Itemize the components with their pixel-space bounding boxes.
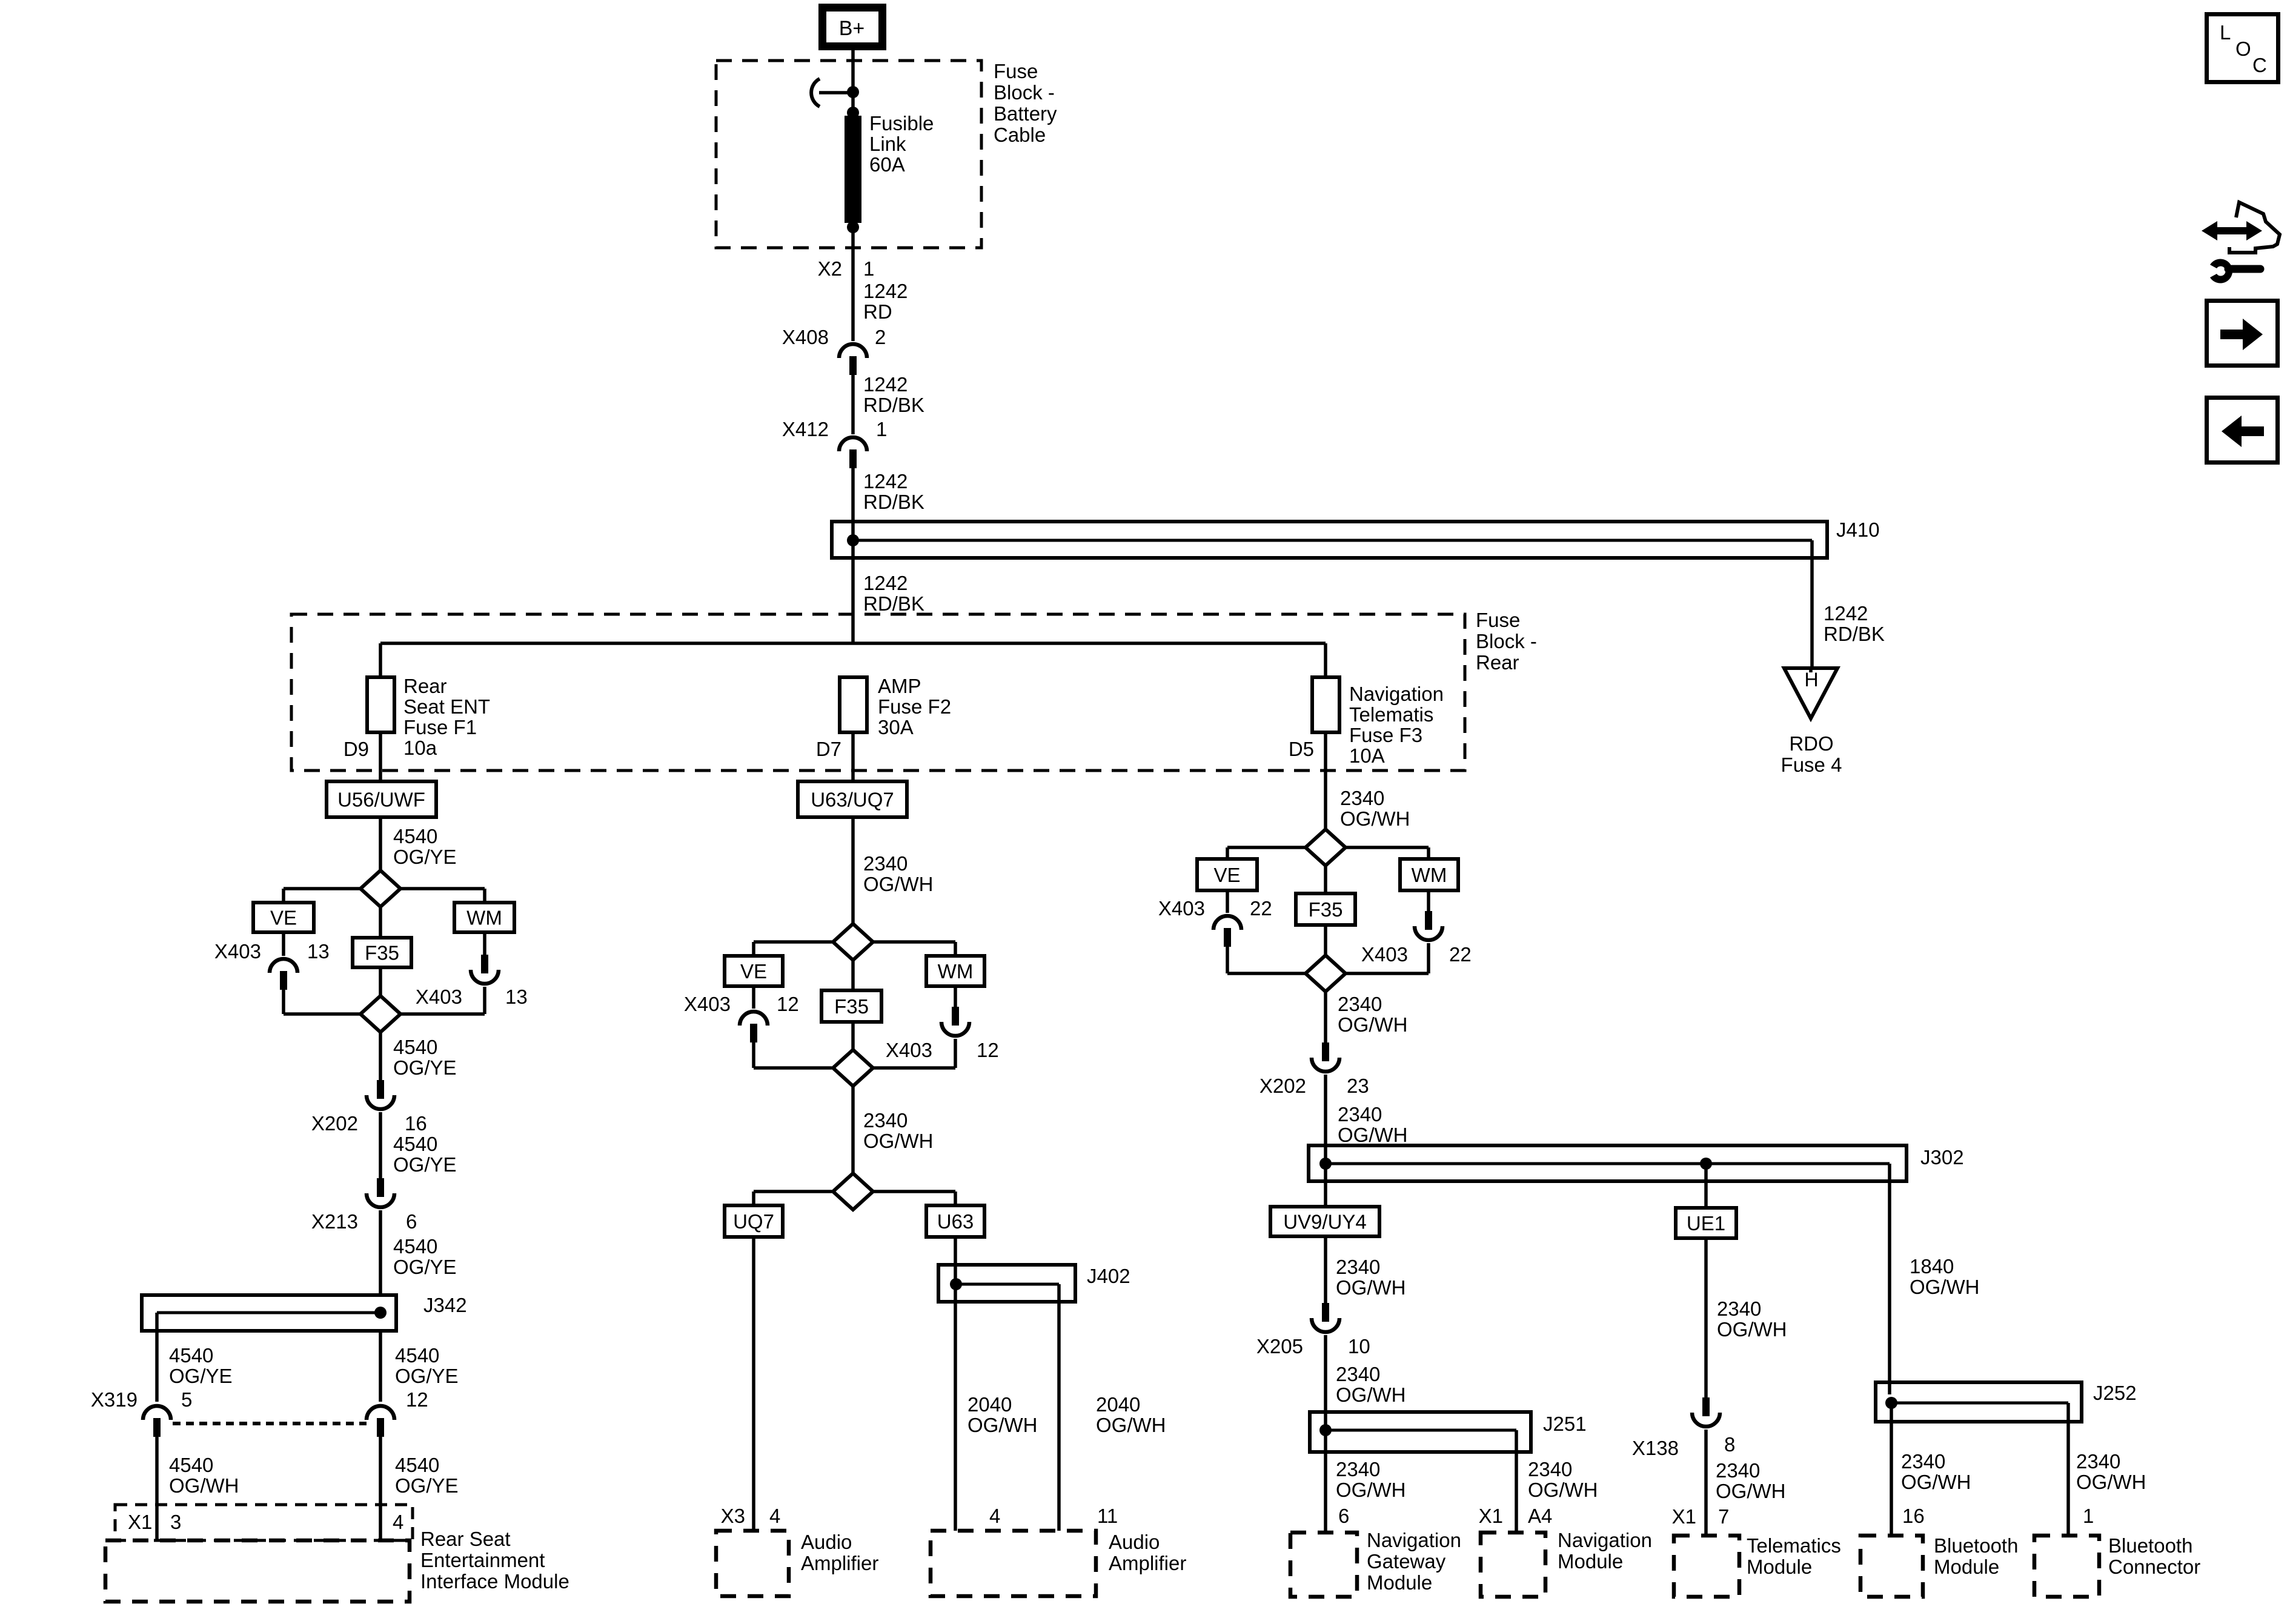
wire label 4540 OG/YE left leg [169, 1344, 233, 1387]
wire splice to U63 [872, 1191, 955, 1205]
wire 1242 RD/BK to splice J410 [851, 466, 855, 522]
wire U56/UWF to splice [379, 817, 382, 870]
wire to splice 3 [851, 1086, 855, 1173]
fusible link label [869, 112, 934, 176]
svg-text:13: 13 [505, 986, 528, 1008]
svg-text:X408: X408 [782, 326, 829, 348]
svg-text:VE: VE [740, 960, 767, 983]
wire J251 to navigation module [1515, 1430, 1518, 1533]
RPO box VE left [253, 903, 314, 932]
rear seat entertainment interface module label [420, 1528, 569, 1593]
svg-text:23: 23 [1347, 1075, 1369, 1097]
svg-text:2340: 2340 [863, 1109, 908, 1132]
wire UV9/UY4 to X205 [1324, 1236, 1327, 1303]
fuse block rear label [1476, 609, 1537, 674]
RPO box VE right [1197, 859, 1257, 890]
svg-text:Link: Link [869, 133, 906, 155]
svg-text:OG/WH: OG/WH [1336, 1479, 1406, 1501]
bluetooth module dashed box [1860, 1536, 1923, 1597]
svg-text:X319: X319 [91, 1388, 138, 1411]
wire label 4540 OG/YE 4 [393, 1235, 457, 1278]
rear seat entertainment interface module dashed box [105, 1540, 410, 1602]
svg-text:2340: 2340 [1336, 1363, 1380, 1385]
wire splice to F35 left [379, 907, 382, 938]
wire X403-12 right to splice [872, 1039, 955, 1068]
wire splice to VE mid [754, 942, 832, 956]
svg-text:X403: X403 [886, 1039, 932, 1061]
wire 1242 RD/BK upper [851, 373, 855, 434]
svg-text:1242: 1242 [863, 470, 908, 492]
svg-text:Audio: Audio [801, 1531, 852, 1553]
wire WM to X403 [483, 932, 486, 955]
bluetooth connector label [2108, 1534, 2200, 1578]
inline connector X138 pin 8 [1632, 1397, 1735, 1459]
svg-text:Fusible: Fusible [869, 112, 934, 134]
wire 1242 RD [851, 248, 855, 341]
wire label 2340 OG/WH right 2 [1338, 993, 1407, 1036]
wire splice to VE [284, 889, 360, 903]
inline connector X403 pin 13 right [416, 955, 528, 1008]
svg-text:7: 7 [1718, 1505, 1729, 1528]
back arrow box [2207, 398, 2278, 463]
wire label 2340 OG/WH right 5 [1336, 1363, 1406, 1406]
svg-text:2340: 2340 [1338, 993, 1382, 1015]
wire J410 to RDO fuse [1810, 540, 1814, 671]
svg-text:Seat ENT: Seat ENT [403, 695, 490, 718]
wire F35 to splice mid lower [851, 1022, 855, 1050]
svg-text:J402: J402 [1087, 1265, 1130, 1287]
wire label 2340 OG/WH gateway [1336, 1458, 1406, 1501]
splice J402 [938, 1265, 1075, 1302]
RPO box UE1 [1676, 1208, 1736, 1238]
svg-text:Amplifier: Amplifier [1109, 1552, 1186, 1574]
svg-text:12: 12 [777, 993, 799, 1015]
svg-text:Audio: Audio [1109, 1531, 1160, 1553]
splice J251 [1310, 1412, 1531, 1452]
svg-text:OG/WH: OG/WH [1528, 1479, 1598, 1501]
svg-text:D9: D9 [343, 738, 369, 760]
svg-text:X1: X1 [1672, 1505, 1696, 1528]
svg-text:10A: 10A [1349, 744, 1385, 767]
wire VE to X403 right column [1226, 890, 1229, 913]
RPO box VE mid [725, 956, 783, 986]
svg-text:X403: X403 [684, 993, 731, 1015]
wire label 4540 OG/YE bottom [395, 1454, 459, 1497]
svg-text:C: C [2252, 54, 2267, 76]
wire splice to UQ7 [754, 1191, 832, 1205]
connector X1 pin A4 labels [1479, 1505, 1553, 1527]
svg-text:Fuse F2: Fuse F2 [878, 695, 951, 718]
svg-text:VE: VE [270, 907, 297, 929]
svg-text:2: 2 [875, 326, 886, 348]
wire label 2340 OG/WH UE1 [1717, 1298, 1787, 1341]
connector X1 pin labels [128, 1511, 403, 1533]
svg-text:X3: X3 [721, 1505, 745, 1527]
wire main through J302 to UV9/UY4 [1324, 1145, 1327, 1207]
svg-text:F35: F35 [365, 942, 399, 964]
wire label 2340 OG/WH mid 1 [863, 852, 933, 895]
inline connector X319 pin 12 [367, 1406, 394, 1420]
svg-text:22: 22 [1250, 897, 1272, 920]
svg-text:WM: WM [466, 907, 502, 929]
svg-text:Module: Module [1747, 1556, 1812, 1578]
svg-text:Telematics: Telematics [1747, 1534, 1841, 1557]
inline connector X412 pin 1 [782, 418, 887, 468]
wire F35 to splice lower left [379, 967, 382, 996]
svg-text:2340: 2340 [1528, 1458, 1572, 1480]
svg-text:UE1: UE1 [1687, 1212, 1725, 1235]
svg-text:10: 10 [1348, 1335, 1370, 1357]
wire label 4540 OG/YE right leg [395, 1344, 459, 1387]
svg-text:4540: 4540 [395, 1454, 439, 1476]
wire fuse F2 to U63/UQ7 [851, 732, 855, 781]
svg-text:OG/YE: OG/YE [395, 1474, 459, 1497]
wire J302 to UE1 [1704, 1164, 1708, 1208]
wire label 2340 OG/WH right 4 [1336, 1256, 1406, 1299]
svg-text:RD/BK: RD/BK [863, 592, 924, 615]
telematics module label [1747, 1534, 1841, 1578]
svg-text:OG/YE: OG/YE [393, 846, 457, 868]
connector X1 pin 7 labels [1672, 1505, 1730, 1528]
svg-text:F35: F35 [1309, 898, 1343, 921]
svg-text:1: 1 [863, 257, 874, 280]
audio amplifier 1 dashed box [716, 1531, 789, 1596]
bluetooth module label [1934, 1534, 2018, 1578]
wire label 1242 RD/BK lower [863, 572, 924, 615]
svg-text:OG/WH: OG/WH [1901, 1471, 1971, 1493]
wire J252 to bluetooth connector [2066, 1403, 2070, 1536]
navigation gateway module dashed box [1290, 1533, 1357, 1597]
splice J302 [1309, 1145, 1907, 1181]
svg-text:Telematis: Telematis [1349, 703, 1433, 726]
svg-text:J252: J252 [2093, 1382, 2137, 1404]
svg-text:4540: 4540 [169, 1344, 213, 1367]
svg-text:2340: 2340 [1336, 1256, 1380, 1278]
svg-text:Rear: Rear [403, 675, 447, 697]
svg-text:OG/WH: OG/WH [863, 873, 933, 895]
svg-text:2340: 2340 [863, 852, 908, 875]
svg-text:60A: 60A [869, 153, 905, 176]
wire splice to WM right [1346, 847, 1429, 859]
battery terminal B+ [823, 8, 883, 47]
svg-text:OG/WH: OG/WH [2076, 1471, 2146, 1493]
fuse block rear feed bus wire [380, 643, 1326, 677]
wire U63 through splice J402 [954, 1237, 957, 1531]
svg-text:Module: Module [1367, 1571, 1432, 1594]
wrench icon [2210, 259, 2260, 283]
svg-text:OG/WH: OG/WH [1096, 1414, 1166, 1436]
svg-text:OG/WH: OG/WH [1910, 1276, 1979, 1298]
svg-text:Fuse: Fuse [994, 60, 1038, 82]
inline connector X205 pin 10 [1256, 1303, 1370, 1357]
svg-text:OG/WH: OG/WH [1338, 1124, 1407, 1146]
wire label 2340 OG/WH telematics [1716, 1459, 1785, 1502]
svg-text:L: L [2220, 21, 2231, 44]
svg-text:WM: WM [938, 960, 974, 983]
wire X138 to telematics module [1704, 1430, 1708, 1536]
svg-text:4540: 4540 [393, 1133, 437, 1155]
connector X319 labels [91, 1388, 428, 1411]
RPO box F35 left [353, 938, 411, 967]
svg-text:1242: 1242 [863, 373, 908, 396]
svg-text:5: 5 [181, 1388, 192, 1411]
connector X1 dashed strip [115, 1505, 413, 1540]
svg-text:4: 4 [393, 1511, 403, 1533]
svg-text:WM: WM [1412, 864, 1447, 886]
svg-text:OG/WH: OG/WH [1717, 1318, 1787, 1341]
fuse block battery cable dashed outline [716, 61, 981, 248]
svg-text:12: 12 [406, 1388, 428, 1411]
svg-text:4540: 4540 [395, 1344, 439, 1367]
svg-text:Fuse F3: Fuse F3 [1349, 724, 1422, 746]
svg-text:11: 11 [1097, 1505, 1118, 1527]
wire label 2340 OG/WH nav module [1528, 1458, 1598, 1501]
svg-text:RD/BK: RD/BK [863, 394, 924, 416]
svg-text:2340: 2340 [1336, 1458, 1380, 1480]
svg-text:A4: A4 [1528, 1505, 1552, 1527]
wire splice to WM [400, 889, 485, 903]
splice diamond mid third [833, 1173, 873, 1210]
RPO box F35 right [1296, 893, 1355, 925]
wire J342 right leg to X319 [379, 1331, 382, 1402]
wire WM to X403 mid [954, 986, 957, 1007]
wire F35 to splice right lower [1324, 925, 1327, 955]
wire X403-13 left to splice [284, 988, 360, 1014]
svg-text:2040: 2040 [967, 1393, 1012, 1416]
svg-text:2340: 2340 [1717, 1298, 1761, 1320]
fuse F1 label [403, 675, 490, 759]
svg-text:J410: J410 [1836, 519, 1880, 541]
svg-text:J302: J302 [1920, 1146, 1964, 1168]
svg-text:RD: RD [863, 300, 892, 323]
wire label 2340 OG/WH bluetooth module [1901, 1450, 1971, 1493]
svg-text:RD/BK: RD/BK [863, 491, 924, 513]
svg-text:OG/YE: OG/YE [393, 1056, 457, 1079]
telematics module dashed box [1674, 1536, 1739, 1597]
svg-text:12: 12 [977, 1039, 999, 1061]
wire X403-22 left to splice [1227, 945, 1306, 973]
svg-text:VE: VE [1213, 864, 1240, 886]
inline connector X213 pin 6 [311, 1178, 417, 1233]
svg-text:Block -: Block - [994, 81, 1055, 104]
svg-text:Entertainment: Entertainment [420, 1549, 545, 1571]
navigation module dashed box [1481, 1533, 1545, 1597]
wire label 1242 RD/BK middle [863, 470, 924, 513]
fuse F3 Navigation Telematis 10A [1312, 677, 1339, 732]
svg-text:3: 3 [170, 1511, 181, 1533]
wire X319-12 to module [379, 1436, 382, 1540]
splice J252 [1876, 1382, 2082, 1422]
svg-text:U63: U63 [937, 1210, 974, 1233]
RPO box U63/UQ7 [798, 781, 907, 817]
svg-text:X403: X403 [214, 940, 261, 963]
wire label 2040 OG/WH right [1096, 1393, 1166, 1436]
wire label 1242 RD/BK right branch [1824, 602, 1885, 645]
svg-text:Fuse 4: Fuse 4 [1781, 754, 1842, 776]
svg-text:2340: 2340 [1901, 1450, 1945, 1473]
svg-text:Bluetooth: Bluetooth [1934, 1534, 2018, 1557]
fuse F2 AMP 30A [840, 677, 867, 732]
svg-text:Module: Module [1934, 1556, 1999, 1578]
wire WM to X403 right column [1427, 890, 1430, 911]
wire fuse F3 down [1324, 732, 1327, 829]
svg-text:Module: Module [1558, 1550, 1623, 1573]
wire splice to F35 right [1324, 866, 1327, 893]
wire label 4540 OG/YE 2 [393, 1036, 457, 1079]
svg-text:30A: 30A [878, 716, 914, 738]
svg-text:X412: X412 [782, 418, 829, 440]
fuse block rear dashed outline [291, 614, 1465, 771]
audio amplifier 2 pin labels [989, 1505, 1118, 1527]
svg-text:Fuse F1: Fuse F1 [403, 716, 477, 738]
inline connector X408 pin 2 [782, 326, 886, 375]
RPO box UQ7 [725, 1205, 783, 1237]
RPO box U63 [926, 1205, 984, 1237]
navigation gateway module label [1367, 1529, 1461, 1594]
svg-text:B+: B+ [839, 17, 865, 40]
wire splice to VE right [1227, 847, 1306, 859]
inline connector X403 pin 22 left [1158, 897, 1272, 947]
wire U63/UQ7 to splice [851, 817, 855, 924]
audio amplifier 2 dashed box [931, 1531, 1096, 1596]
svg-text:X2: X2 [818, 257, 842, 280]
svg-text:F35: F35 [834, 995, 869, 1018]
fuse block battery cable label [994, 60, 1057, 146]
svg-text:Fuse: Fuse [1476, 609, 1520, 631]
svg-text:8: 8 [1724, 1433, 1735, 1456]
svg-text:Navigation: Navigation [1349, 683, 1444, 705]
power symbol H RDO Fuse 4 [1784, 668, 1837, 718]
svg-text:2340: 2340 [2076, 1450, 2120, 1473]
wire X202 to X213 [379, 1112, 382, 1178]
wire X403-12 left to splice [754, 1041, 832, 1068]
svg-text:X213: X213 [311, 1210, 358, 1233]
svg-text:1242: 1242 [1824, 602, 1868, 625]
inline connector X319 pin 5 [143, 1406, 171, 1420]
svg-text:X138: X138 [1632, 1437, 1679, 1459]
wire label 2340 OG/WH right 3 [1338, 1103, 1407, 1146]
wire fuse F1 to U56/UWF [379, 732, 382, 781]
svg-text:Bluetooth: Bluetooth [2108, 1534, 2192, 1557]
svg-text:X1: X1 [1479, 1505, 1503, 1527]
svg-text:UQ7: UQ7 [733, 1210, 774, 1233]
svg-text:2340: 2340 [1340, 787, 1384, 809]
wire to X202 right [1324, 992, 1327, 1042]
navigation module label [1558, 1529, 1652, 1573]
wire J402 to audio amplifier 2 [1057, 1284, 1061, 1531]
wire X205 to splice J251 [1324, 1335, 1327, 1412]
RPO box WM left [454, 903, 514, 932]
inline connector X403 pin 12 right [886, 1007, 999, 1061]
svg-text:1242: 1242 [863, 572, 908, 594]
audio amplifier 1 label [801, 1531, 878, 1574]
wire UE1 to X138 [1704, 1238, 1708, 1397]
svg-text:X202: X202 [311, 1112, 358, 1135]
wire VE to X403 [282, 932, 285, 956]
svg-text:1242: 1242 [863, 280, 908, 302]
svg-text:4540: 4540 [393, 1036, 437, 1058]
wire B+ to fuse block [851, 50, 855, 92]
fusible link 60A [845, 92, 861, 248]
splice J342 [142, 1295, 396, 1331]
svg-text:J342: J342 [423, 1294, 467, 1316]
svg-text:OG/WH: OG/WH [967, 1414, 1037, 1436]
wire label 4540 OG/YE 3 [393, 1133, 457, 1176]
audio amplifier 2 label [1109, 1531, 1186, 1574]
svg-text:13: 13 [307, 940, 330, 963]
svg-text:22: 22 [1449, 943, 1472, 966]
svg-text:4: 4 [989, 1505, 1000, 1527]
svg-text:OG/YE: OG/YE [169, 1365, 233, 1387]
wire label 4540 OG/YE 1 [393, 825, 457, 868]
svg-text:4540: 4540 [169, 1454, 213, 1476]
svg-text:1: 1 [876, 418, 887, 440]
wire X319-5 to module [155, 1436, 159, 1540]
svg-text:RDO: RDO [1789, 732, 1833, 755]
wire X403-13 right to splice [400, 987, 485, 1014]
svg-text:16: 16 [405, 1112, 427, 1135]
svg-text:2340: 2340 [1716, 1459, 1760, 1482]
svg-text:Connector: Connector [2108, 1556, 2200, 1578]
inline connector X202 pin 16 [311, 1080, 427, 1135]
svg-text:Interface Module: Interface Module [420, 1570, 569, 1593]
svg-text:X403: X403 [416, 986, 462, 1008]
splice diamond left lower [360, 996, 400, 1032]
svg-text:OG/WH: OG/WH [1338, 1013, 1407, 1036]
svg-text:OG/YE: OG/YE [395, 1365, 459, 1387]
junction node at fusible link top [847, 86, 859, 98]
connector X3 pin 4 labels [721, 1505, 781, 1527]
svg-text:6: 6 [1338, 1505, 1349, 1527]
LOC legend box [2207, 15, 2278, 82]
svg-text:O: O [2235, 38, 2251, 60]
wire splice to F35 mid [851, 961, 855, 990]
splice diamond left upper [360, 870, 400, 907]
wire label 2340 OG/WH bluetooth connector [2076, 1450, 2146, 1493]
wire splice to WM mid [872, 942, 955, 956]
svg-text:Amplifier: Amplifier [801, 1552, 878, 1574]
splice J410 [832, 522, 1827, 558]
fuse F3 label [1349, 683, 1444, 767]
svg-text:D7: D7 [816, 738, 841, 760]
svg-text:OG/WH: OG/WH [1716, 1480, 1785, 1502]
wire label 1242 RD [863, 280, 908, 323]
splice diamond right upper [1306, 829, 1346, 866]
wire X403-22 right to splice [1346, 943, 1429, 973]
wire J251 to navigation gateway module [1324, 1412, 1327, 1533]
wire label 2040 OG/WH left [967, 1393, 1037, 1436]
svg-text:4540: 4540 [393, 825, 437, 847]
wire J302 to splice J252 [1888, 1164, 1891, 1382]
splice diamond mid lower [833, 1050, 873, 1086]
inline connector X403 pin 22 right [1361, 911, 1472, 966]
svg-text:OG/WH: OG/WH [1340, 807, 1410, 830]
wire J342 left leg to X319 [155, 1331, 159, 1402]
svg-text:OG/YE: OG/YE [393, 1153, 457, 1176]
RPO box UV9/UY4 [1270, 1207, 1379, 1236]
splice diamond right lower [1306, 955, 1346, 992]
svg-text:UV9/UY4: UV9/UY4 [1283, 1211, 1367, 1233]
svg-text:OG/WH: OG/WH [1336, 1276, 1406, 1299]
RDO Fuse 4 label [1781, 732, 1842, 776]
svg-text:U56/UWF: U56/UWF [337, 789, 425, 811]
svg-text:Block -: Block - [1476, 630, 1537, 652]
fuse F2 label [878, 675, 951, 738]
RPO box U56/UWF [327, 781, 436, 817]
inline connector X403 pin 13 left [214, 940, 330, 990]
svg-text:Navigation: Navigation [1558, 1529, 1652, 1551]
inline connector X403 pin 12 left [684, 993, 799, 1042]
